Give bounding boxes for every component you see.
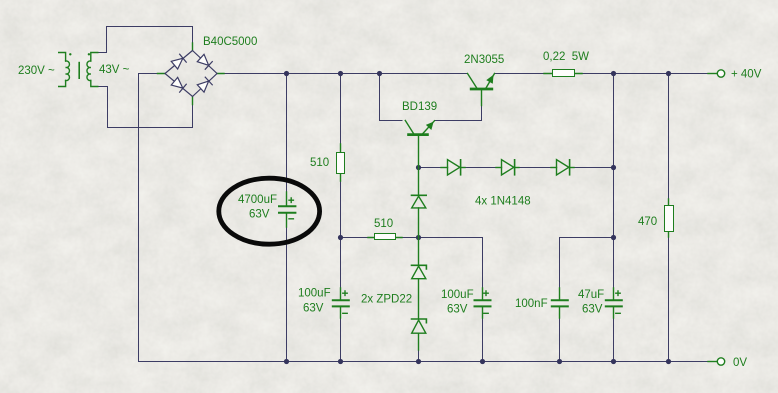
wire diode row segments [419,167,614,169]
node bottom rail x=418 [416,359,421,364]
diode bridge top-right [197,54,212,69]
resistor 510 vertical [337,144,345,181]
svg-text:510: 510 [374,218,393,230]
diode D4 1N4148 vertical [412,168,427,238]
svg-text:100nF: 100nF [515,298,548,310]
svg-text:B40C5000: B40C5000 [203,36,257,48]
svg-text:470: 470 [638,216,657,228]
capacitor 100nF [552,288,568,318]
node 47uF top [611,235,616,240]
svg-text:4x 1N4148: 4x 1N4148 [475,196,531,208]
svg-text:+ 40V: + 40V [731,69,762,81]
capacitor 100uF #1 [333,288,349,318]
capacitor 47uF [606,288,622,318]
wire BD139 emitter to 2N3055 base [435,106,482,121]
diode bridge bottom-left [171,77,186,92]
node bottom rail x=613 [611,359,616,364]
svg-text:100uF: 100uF [441,289,474,301]
transformer T primary winding [59,53,72,87]
resistor 510 horizontal [368,234,402,240]
bridge rectifier B40C5000 stubs [158,43,225,105]
svg-text:63V: 63V [303,303,324,315]
diode bridge top-left [171,54,186,69]
wire BD139 collector riser [380,74,403,121]
node bottom rail x=482 [480,359,485,364]
svg-text:47uF: 47uF [578,289,604,301]
wire zener column bottom [418,350,420,362]
wire 100nF top link [560,238,614,289]
bridge rectifier diamond [165,51,217,97]
terminal 0V [708,358,725,365]
svg-text:2N3055: 2N3055 [464,54,504,66]
node bottom rail x=286 [284,359,289,364]
node diode row left [416,165,421,170]
svg-text:63V: 63V [582,304,603,316]
transistor Q2 BD139 [405,121,434,168]
wire bottom rail [139,361,709,363]
wire right column x=613 [613,74,615,362]
transformer core [78,63,80,79]
diode D1 1N4148 [441,160,465,175]
capacitor 100uF #2 [475,288,491,318]
svg-text:510: 510 [310,157,329,169]
node 510h left [338,235,343,240]
node bottom rail x=669 [666,359,671,364]
wire 4700uF column [286,74,288,362]
node bottom rail x=340 [338,359,343,364]
wire top rail left (bridge to 2N3055 collector) [224,73,468,75]
node bottom rail x=559 [557,359,562,364]
diode bridge bottom-right [197,77,212,92]
terminal +40V [708,70,725,77]
transformer T secondary winding [87,53,98,87]
wire top rail mid (2N3055 emitter to 0.22 resistor) [495,73,545,75]
svg-text:2x ZPD22: 2x ZPD22 [361,294,412,306]
node diode row right [611,165,616,170]
svg-text:4700uF: 4700uF [238,194,277,206]
diode D3 1N4148 [551,160,574,175]
wire 470 column [668,74,670,362]
transistor Q1 2N3055 [468,74,495,106]
resistor 470 [665,199,674,237]
node top rail x=669 [666,71,671,76]
wire 100uF#2 bottom [482,318,484,362]
resistor 0,22 5W [544,70,582,77]
diode D2 1N4148 [496,160,519,175]
svg-text:0V: 0V [733,357,747,369]
svg-text:230V ~: 230V ~ [18,65,55,77]
highlight ellipse around 4700uF [219,178,320,244]
capacitor 4700uF [279,192,295,227]
node top rail x=286 [284,71,289,76]
zener diode ZD2 ZPD22 [412,319,427,350]
svg-text:43V ~: 43V ~ [99,64,130,76]
wire node to 100uF#2 column [419,238,483,289]
node top rail x=340 [338,71,343,76]
wire top rail right (0.22 resistor to +40V) [582,73,708,75]
svg-text:BD139: BD139 [402,101,437,113]
svg-text:100uF: 100uF [298,288,331,300]
zener diode ZD1 ZPD22 [412,238,427,319]
node 510h right [416,235,421,240]
wire bridge-left to bottom rail [139,74,158,362]
svg-text:63V: 63V [447,304,468,316]
wire 510h left lead [341,237,369,239]
wire 100nF bottom [559,318,561,362]
wire 510/100uF column x=340.5 [340,74,342,362]
svg-text:0,22 5W: 0,22 5W [543,51,589,63]
wire secondary-top to bridge-top loop [99,27,193,53]
wire secondary-bottom to bridge-bottom loop [99,87,193,128]
node top rail x=613 [611,71,616,76]
svg-text:63V: 63V [249,209,270,221]
node top rail x=379 [377,71,382,76]
wire 510h right lead to node [402,237,419,239]
